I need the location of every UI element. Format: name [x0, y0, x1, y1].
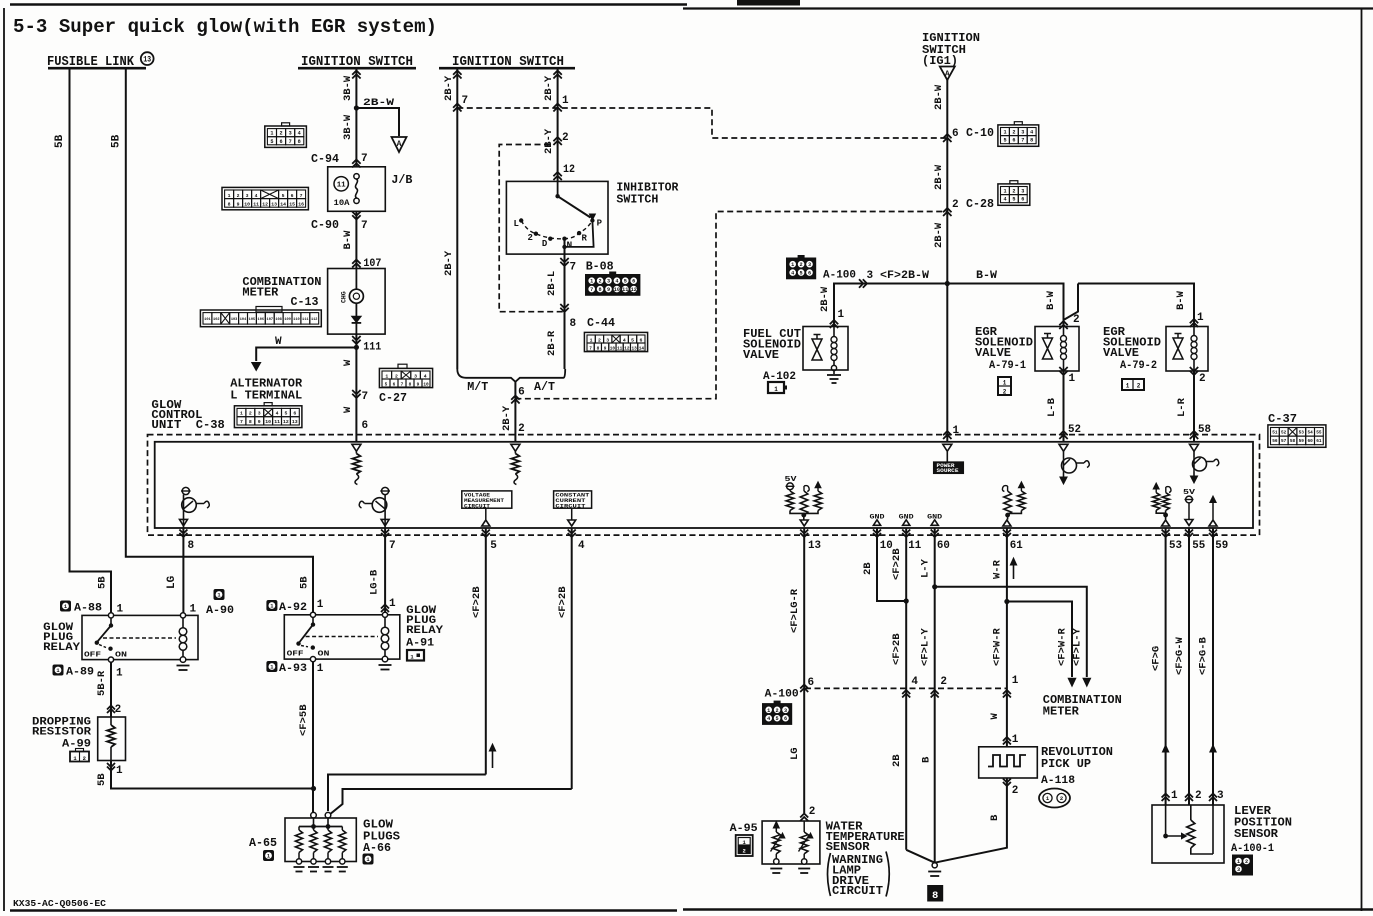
svg-text:12: 12 — [624, 347, 630, 352]
svg-text:10: 10 — [265, 419, 271, 425]
arrow to alternator — [252, 363, 261, 371]
svg-text:2B-W: 2B-W — [819, 286, 831, 312]
svg-text:1: 1 — [240, 411, 243, 417]
dropping resistor element — [110, 717, 112, 725]
pin 60 wire — [934, 528, 936, 863]
svg-text:1: 1 — [267, 854, 270, 860]
glow control unit outer dashed box — [148, 435, 1260, 535]
coil EGR2 — [1193, 327, 1195, 336]
svg-text:L: L — [514, 219, 519, 229]
svg-text:8: 8 — [188, 540, 195, 552]
connector C-37 grid — [1268, 425, 1326, 447]
svg-text:7: 7 — [389, 540, 396, 552]
svg-text:SENSOR: SENSOR — [1234, 827, 1279, 841]
svg-text:<F>W-R: <F>W-R — [1057, 627, 1069, 666]
C-13 strip tab — [256, 307, 282, 313]
svg-text:7: 7 — [362, 391, 369, 403]
svg-text:A-65: A-65 — [249, 836, 277, 850]
svg-text:2: 2 — [1060, 795, 1063, 802]
wire 3B-W ignition sw to J/B — [355, 68, 357, 167]
svg-text:M/T: M/T — [467, 380, 488, 394]
inhibitor switch box — [506, 181, 608, 254]
page border top-left — [10, 3, 687, 6]
wire B-W to fuel cut valve — [834, 284, 947, 328]
svg-text:112: 112 — [311, 318, 317, 322]
svg-text:2B-L: 2B-L — [546, 271, 558, 296]
svg-text:1: 1 — [791, 262, 794, 268]
connector A-100 bottom — [763, 704, 792, 725]
revolution pick up box — [979, 747, 1038, 778]
charge lamp CHG — [349, 289, 363, 303]
svg-text:2B-W: 2B-W — [933, 164, 945, 190]
relay1 coil ground — [177, 665, 190, 667]
svg-text:B-W: B-W — [976, 270, 997, 282]
svg-text:9: 9 — [258, 419, 261, 425]
page border left — [3, 8, 5, 911]
svg-text:3: 3 — [258, 411, 261, 417]
svg-text:1: 1 — [190, 604, 197, 616]
svg-text:1: 1 — [767, 708, 770, 714]
svg-text:3: 3 — [1021, 189, 1024, 195]
wire 2B-Y left (M/T) — [456, 68, 458, 369]
svg-text:110: 110 — [293, 318, 299, 322]
svg-text:2: 2 — [83, 755, 86, 762]
ground numbered 8 — [928, 886, 943, 902]
resistor Ra — [786, 491, 794, 511]
svg-text:1: 1 — [116, 765, 123, 777]
svg-text:2: 2 — [1199, 373, 1206, 385]
svg-text:RELAY: RELAY — [43, 642, 80, 654]
svg-text:L-Y: L-Y — [920, 558, 932, 578]
pin5 wire to glow plugs — [328, 775, 486, 812]
svg-text:8: 8 — [599, 287, 602, 293]
svg-text:ON: ON — [318, 651, 330, 659]
svg-text:METER: METER — [242, 286, 279, 300]
svg-text:2: 2 — [249, 411, 252, 417]
svg-text:10: 10 — [244, 202, 250, 208]
relay2 output terminal — [310, 657, 315, 662]
svg-text:6: 6 — [952, 128, 959, 140]
chevrons below inhibitor — [560, 258, 568, 266]
svg-text:A-100: A-100 — [765, 689, 799, 701]
glow plug relay 1 box — [82, 615, 198, 659]
svg-text:6: 6 — [280, 139, 283, 145]
svg-text:1: 1 — [317, 599, 324, 611]
svg-text:OFF: OFF — [287, 651, 305, 659]
svg-text:5: 5 — [270, 139, 273, 145]
svg-text:1: 1 — [774, 386, 778, 393]
svg-text:METER: METER — [1043, 705, 1080, 719]
dashed link A/T to C-28 — [515, 212, 947, 399]
svg-text:56: 56 — [1272, 439, 1278, 444]
svg-text:3: 3 — [784, 708, 787, 714]
svg-text:3: 3 — [1237, 867, 1240, 873]
svg-text:5: 5 — [1012, 197, 1015, 203]
svg-text:101: 101 — [204, 318, 210, 322]
svg-text:J/B: J/B — [391, 173, 412, 187]
page border right — [1361, 8, 1363, 911]
svg-text:2: 2 — [1073, 314, 1080, 326]
svg-text:B-W: B-W — [1045, 290, 1057, 310]
svg-text:8: 8 — [298, 139, 301, 145]
svg-text:61: 61 — [1010, 540, 1023, 552]
relay2 dashed link — [306, 636, 378, 638]
svg-text:11: 11 — [253, 202, 259, 208]
svg-text:51: 51 — [1272, 431, 1278, 436]
svg-text:A-90: A-90 — [206, 605, 234, 617]
svg-text:1: 1 — [1012, 734, 1019, 746]
svg-text:LG-B: LG-B — [369, 569, 381, 595]
svg-text:4: 4 — [1003, 197, 1006, 203]
off-page connector A (triangle) — [392, 137, 407, 152]
relay1 coil — [180, 613, 185, 618]
ignition switch 2 bar — [439, 67, 575, 70]
pin 7 wire to relay A-91 coil — [384, 528, 386, 615]
svg-text:A-79-1: A-79-1 — [989, 360, 1026, 372]
svg-text:1: 1 — [1237, 859, 1240, 865]
relay2 switch — [312, 617, 314, 623]
svg-text:C-27: C-27 — [379, 391, 407, 405]
svg-text:2: 2 — [1245, 859, 1248, 865]
svg-text:3: 3 — [808, 262, 811, 268]
wire 5B-R to dropping resistor — [110, 662, 112, 717]
connector C-44 grid — [584, 332, 647, 351]
svg-text:<F>G-B: <F>G-B — [1198, 636, 1210, 675]
svg-text:5: 5 — [490, 540, 497, 552]
svg-text:A-95: A-95 — [730, 823, 758, 835]
svg-text:5B: 5B — [54, 134, 66, 148]
svg-text:3: 3 — [1217, 790, 1224, 802]
dropping resistor box — [98, 717, 126, 761]
diode symbol — [352, 316, 362, 322]
svg-text:2: 2 — [809, 806, 816, 818]
svg-text:1: 1 — [562, 95, 569, 107]
svg-text:59: 59 — [1299, 439, 1305, 444]
svg-text:12: 12 — [262, 202, 268, 208]
svg-text:C-38: C-38 — [196, 418, 225, 432]
fuse 10A symbol — [354, 174, 359, 179]
resistor at pin 2 — [514, 452, 516, 454]
thermistor 2 — [803, 821, 805, 832]
branch wire to alternator — [256, 348, 356, 362]
sensor wire 1 — [1165, 805, 1167, 836]
svg-text:C-13: C-13 — [291, 295, 319, 309]
svg-text:4: 4 — [578, 540, 585, 552]
inhibitor rotor arm to P — [558, 196, 591, 217]
glow control unit inner box — [155, 442, 1253, 528]
svg-text:4: 4 — [911, 676, 918, 688]
pin4 wire to glow plugs — [329, 789, 572, 815]
inhibitor output wire N — [564, 239, 566, 369]
resistor Rb — [804, 486, 809, 492]
svg-text:5: 5 — [776, 716, 779, 722]
svg-text:<F>G: <F>G — [1151, 646, 1163, 671]
water temperature sensor box — [762, 821, 820, 864]
svg-text:RELAY: RELAY — [406, 625, 443, 637]
coil EGR1 — [1063, 327, 1065, 336]
svg-text:C-90: C-90 — [311, 218, 339, 232]
svg-text:5B: 5B — [111, 134, 123, 148]
svg-text:7: 7 — [361, 220, 368, 232]
svg-text:<F>2B: <F>2B — [471, 586, 483, 618]
svg-text:L TERMINAL: L TERMINAL — [230, 389, 302, 403]
scan blob top — [737, 0, 800, 6]
svg-text:3: 3 — [289, 131, 292, 137]
svg-text:4: 4 — [767, 716, 770, 722]
direction arrow wire59 — [1212, 750, 1214, 770]
branch to combination meter W-R — [1007, 602, 1072, 678]
svg-text:5-3 Super quick glow(with EGR: 5-3 Super quick glow(with EGR system) — [13, 16, 437, 38]
svg-text:5B: 5B — [97, 576, 109, 589]
svg-text:10A: 10A — [334, 199, 350, 208]
inhibitor pivot wire — [557, 181, 559, 196]
svg-text:106: 106 — [258, 318, 264, 322]
svg-text:2B-Y: 2B-Y — [501, 405, 513, 431]
potentiometer — [1190, 805, 1192, 820]
svg-text:13: 13 — [631, 347, 637, 352]
svg-text:7: 7 — [401, 383, 404, 388]
connector C-13 strip — [200, 310, 321, 327]
svg-text:2: 2 — [280, 131, 283, 137]
svg-text:6: 6 — [632, 279, 635, 285]
svg-text:A-100-1: A-100-1 — [1231, 843, 1274, 855]
svg-text:1: 1 — [838, 309, 845, 321]
svg-text:111: 111 — [302, 318, 308, 322]
pin 13 wire — [803, 528, 805, 813]
svg-text:61: 61 — [1316, 439, 1322, 444]
svg-text:11: 11 — [337, 182, 346, 190]
wire 2B-W IG1 down — [946, 79, 948, 442]
wire 2B-W branch to connector A — [356, 108, 399, 136]
svg-text:4: 4 — [791, 271, 794, 277]
svg-text:3: 3 — [1021, 130, 1024, 136]
svg-text:5B: 5B — [96, 773, 108, 786]
svg-text:2: 2 — [952, 199, 959, 211]
transistor Q1 (pin 8 driver) — [182, 487, 189, 494]
square wave symbol — [988, 755, 1026, 767]
dashed link ign2 to C-10 — [457, 108, 947, 138]
wiper arrow — [1166, 835, 1182, 837]
dashed connector A-100 line — [805, 687, 1007, 689]
pin 59 wire — [1212, 528, 1214, 805]
svg-text:A-92: A-92 — [279, 602, 307, 614]
svg-text:VALVE: VALVE — [743, 348, 779, 362]
fusible link number circle 13 — [141, 52, 154, 65]
svg-text:A-91: A-91 — [406, 638, 434, 650]
direction arrow pin5 — [492, 748, 494, 768]
transistor Q2 (pin 7 driver) — [382, 487, 389, 494]
wire (F)5B to glow plugs — [312, 662, 314, 813]
inhibitor dashed outline — [499, 145, 564, 312]
svg-text:14: 14 — [639, 347, 645, 352]
svg-text:A-93: A-93 — [279, 663, 307, 675]
svg-text:7: 7 — [1021, 138, 1024, 144]
thermistor 1 — [773, 822, 779, 829]
pin 53 wire — [1165, 528, 1167, 805]
svg-text:1: 1 — [1003, 130, 1006, 136]
svg-text:53: 53 — [1169, 540, 1182, 552]
svg-text:RESISTOR: RESISTOR — [32, 727, 91, 739]
svg-text:<F>LG-R: <F>LG-R — [789, 588, 801, 633]
relay2 coil — [382, 612, 387, 617]
svg-text:1: 1 — [270, 131, 273, 137]
wire L-R EGR2 to pin 58 — [1193, 371, 1195, 442]
valve symbol fuel cut — [812, 339, 822, 360]
glow plug elements — [298, 827, 300, 831]
svg-text:2B: 2B — [862, 562, 874, 575]
junction glow plug bus — [311, 786, 316, 791]
svg-text:3: 3 — [867, 270, 874, 282]
connector A-118 oval — [1039, 789, 1070, 808]
svg-text:2B-W: 2B-W — [363, 97, 395, 109]
icon A-88 — [61, 601, 71, 611]
svg-text:2B-R: 2B-R — [546, 330, 558, 356]
combination meter box — [328, 269, 386, 335]
power source block — [943, 444, 952, 451]
relay1 dashed link — [103, 637, 176, 639]
svg-text:2B-Y: 2B-Y — [543, 75, 555, 101]
svg-text:<F>W-R: <F>W-R — [992, 627, 1004, 666]
connector A-100-1 — [1233, 855, 1253, 875]
svg-text:5B: 5B — [299, 576, 311, 589]
svg-text:6: 6 — [362, 420, 369, 432]
pin11 diagonal to ground8 — [906, 850, 935, 863]
svg-text:SWITCH: SWITCH — [616, 193, 658, 207]
svg-text:1: 1 — [389, 598, 396, 610]
J/B box — [328, 167, 386, 212]
parens warning lamp — [828, 853, 831, 896]
connector C-90 grid — [222, 187, 308, 209]
svg-text:13: 13 — [808, 540, 821, 552]
svg-text:CIRCUIT: CIRCUIT — [555, 502, 586, 509]
svg-text:2B-W: 2B-W — [933, 84, 945, 110]
svg-text:6: 6 — [808, 271, 811, 277]
pin 61 wire — [1006, 528, 1008, 747]
svg-text:1: 1 — [590, 279, 593, 285]
pin 5 wire — [485, 528, 487, 775]
svg-text:11: 11 — [274, 419, 280, 425]
svg-text:57: 57 — [1281, 439, 1287, 444]
off-page connector A triangle — [940, 67, 955, 81]
pin 55 wire — [1188, 528, 1190, 805]
fusible link bus bar — [48, 67, 146, 70]
svg-text:2: 2 — [599, 279, 602, 285]
svg-text:W: W — [342, 406, 354, 413]
svg-text:10: 10 — [614, 287, 620, 293]
glow plug relay 2 box — [284, 615, 400, 659]
svg-text:A-66: A-66 — [363, 841, 391, 855]
connector C-27 grid — [379, 364, 432, 387]
glow plugs box — [285, 818, 356, 862]
svg-text:4: 4 — [276, 411, 279, 417]
svg-text:12: 12 — [283, 419, 289, 425]
svg-text:SOURCE: SOURCE — [937, 468, 959, 474]
svg-text:1: 1 — [1126, 383, 1130, 390]
svg-text:<F>L-Y: <F>L-Y — [920, 627, 932, 666]
valve symbol EGR2 — [1173, 338, 1183, 359]
svg-text:PICK UP: PICK UP — [1041, 757, 1091, 771]
svg-text:8: 8 — [932, 890, 938, 902]
svg-text:11: 11 — [622, 287, 628, 293]
svg-text:A-89: A-89 — [66, 667, 94, 679]
svg-text:2B-Y: 2B-Y — [543, 128, 555, 154]
pin 10 wire — [877, 528, 906, 601]
connector A-99 — [70, 752, 89, 762]
glow plug feed terminal 1 — [311, 812, 317, 818]
svg-text:L-B: L-B — [1046, 397, 1058, 417]
svg-text:1: 1 — [1069, 373, 1076, 385]
pins 53/55/59 cluster — [1153, 483, 1159, 489]
svg-text:B: B — [989, 814, 1001, 821]
ignition switch 1 bar — [298, 67, 416, 70]
pin 2 entry arrow — [511, 444, 520, 451]
glow plug bus — [313, 818, 315, 827]
svg-text:2B: 2B — [891, 754, 903, 767]
resistor at pin 6 — [355, 452, 357, 454]
arrow pin 59 — [1210, 496, 1216, 503]
wire B-W to EGR2 — [1078, 284, 1194, 327]
svg-text:2B-Y: 2B-Y — [443, 250, 455, 276]
connector A-102 — [768, 382, 784, 393]
svg-text:7: 7 — [589, 347, 592, 352]
icon A-65 — [264, 851, 274, 861]
svg-text:<F>G-W: <F>G-W — [1174, 636, 1186, 675]
pin 6 entry arrow — [352, 444, 361, 451]
svg-text:60: 60 — [1307, 439, 1313, 444]
svg-text:54: 54 — [1307, 431, 1313, 436]
icon A-92 — [267, 601, 277, 611]
wire 2B-Y right to inhibitor — [557, 68, 559, 181]
svg-text:SENSOR: SENSOR — [826, 840, 871, 854]
svg-text:9: 9 — [417, 383, 420, 388]
svg-text:A/T: A/T — [534, 380, 555, 394]
valve symbol EGR1 — [1043, 338, 1053, 359]
coil fuel cut — [833, 327, 835, 337]
svg-text:C-10: C-10 — [966, 126, 994, 140]
svg-text:7: 7 — [361, 153, 368, 165]
svg-text:B: B — [921, 756, 933, 763]
svg-text:A-118: A-118 — [1041, 775, 1075, 787]
svg-text:CIRCUIT: CIRCUIT — [832, 884, 883, 898]
svg-text:A: A — [397, 140, 402, 149]
svg-text:8: 8 — [1030, 138, 1033, 144]
svg-text:4: 4 — [615, 279, 618, 285]
svg-text:<F>2B: <F>2B — [891, 633, 903, 665]
chevrons C-27 — [352, 390, 360, 398]
direction arrow pin61 — [1013, 562, 1015, 579]
wire B-W J/B to combination meter — [355, 211, 357, 268]
icon A-93 — [267, 662, 277, 672]
fuse circled 11 — [334, 177, 348, 191]
svg-text:1: 1 — [270, 665, 273, 671]
svg-text:A-79-2: A-79-2 — [1120, 360, 1157, 372]
svg-text:C-94: C-94 — [311, 152, 339, 166]
svg-text:W: W — [275, 336, 282, 348]
svg-text:4: 4 — [1030, 130, 1033, 136]
EGR driver transistor pin 58 — [1190, 444, 1199, 451]
svg-text:6: 6 — [1021, 197, 1024, 203]
connector A-79-1 — [998, 377, 1011, 395]
svg-text:VALVE: VALVE — [1103, 346, 1139, 360]
svg-text:5: 5 — [385, 383, 388, 388]
fuel cut solenoid valve box — [803, 327, 848, 371]
svg-text:1: 1 — [953, 425, 960, 437]
svg-text:<F>2B-W: <F>2B-W — [880, 270, 929, 282]
inhibitor contact arc dashed — [521, 221, 592, 239]
svg-text:6: 6 — [518, 387, 525, 399]
svg-text:W: W — [989, 713, 1001, 720]
svg-text:107: 107 — [267, 318, 273, 322]
